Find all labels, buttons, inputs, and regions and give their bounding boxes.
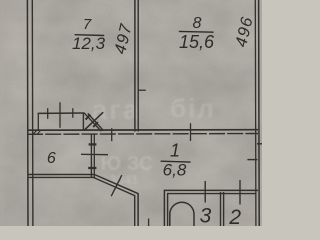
room 7 fraction line (75, 34, 105, 37)
vent shaft left vertical (82, 113, 84, 131)
closet partition horizontal line (38, 112, 85, 114)
svg-text:ага: ага (92, 94, 141, 125)
room6 right wall right line (93, 134, 95, 178)
paper background (0, 0, 262, 226)
svg-text:8: 8 (193, 15, 202, 32)
main horizontal wall top line (27, 129, 258, 132)
tick through bathroom wall right (239, 180, 241, 205)
room 1 fraction line (161, 160, 191, 163)
door jamb line at bottom (148, 219, 150, 227)
closet partition vertical end (37, 113, 39, 129)
left outer wall line (26, 0, 29, 226)
svg-text:3: 3 (200, 204, 212, 226)
watermark ghost letters lower band (101, 153, 154, 187)
dark blotch bottom left (0, 171, 38, 239)
right outer wall line (258, 0, 261, 226)
room6 door jamb upper (89, 143, 97, 145)
vent shaft cross stroke (84, 112, 103, 130)
tick on wall 7/8 (138, 89, 146, 91)
right wall stub to edge (257, 143, 262, 145)
svg-text:12,3: 12,3 (72, 34, 106, 53)
bathtub (170, 202, 194, 228)
tick through bathroom wall left (204, 181, 206, 203)
svg-text:15,6: 15,6 (179, 32, 215, 52)
wall between rooms 3 and 2 right line (223, 192, 225, 226)
partition tick 3 (72, 108, 74, 118)
room6 bottom wall bottom line (28, 176, 95, 178)
svg-text:2: 2 (228, 206, 241, 226)
bathroom top wall inner (168, 193, 256, 195)
room 8 fraction line (179, 30, 214, 33)
svg-text:бiл: бiл (170, 93, 216, 123)
room6 bottom wall top line (28, 174, 95, 176)
right inner wall line (254, 0, 257, 226)
wall between rooms 3 and 2 left line (220, 192, 222, 226)
partition tick 1 (47, 108, 49, 119)
tick on main wall at hall right (190, 123, 192, 141)
room6 door cross line (81, 153, 108, 155)
vent shaft diagonal outer (84, 113, 101, 131)
right wall tick (247, 159, 257, 161)
svg-text:6: 6 (47, 150, 56, 167)
bathroom left wall outer (163, 190, 165, 226)
vent shaft diagonal inner (88, 113, 104, 130)
vent tick b (93, 122, 98, 127)
svg-text:1: 1 (170, 140, 180, 160)
svg-text:3041: 3041 (110, 172, 139, 187)
wall poche hatch near left end (34, 131, 37, 134)
main horizontal wall bottom line (broken) (27, 133, 258, 136)
bathroom top wall outer (164, 189, 258, 191)
wall between room7 and room8 (right line) (137, 0, 139, 132)
room6 door jamb lower (88, 167, 96, 169)
bathroom left wall inner (167, 193, 169, 226)
svg-text:7: 7 (83, 16, 92, 33)
diagonal door tick (111, 175, 122, 196)
svg-text:6,8: 6,8 (163, 161, 187, 180)
watermark ghost letters upper band (92, 93, 216, 125)
left inner wall line (31, 0, 34, 226)
scan shading left edge (0, 0, 4, 226)
vent tick a (86, 115, 91, 120)
tick on main wall at hall left (111, 128, 113, 141)
hall diagonal wall inner (93, 177, 135, 226)
hall diagonal wall outer (94, 175, 138, 227)
partition tick 2 (long) (59, 102, 61, 128)
wall between room7 and room8 (left line) (134, 0, 136, 132)
room6 right wall left line (90, 134, 92, 178)
scan edge shading right (260, 0, 263, 226)
